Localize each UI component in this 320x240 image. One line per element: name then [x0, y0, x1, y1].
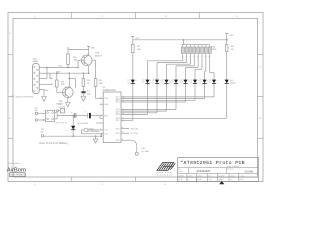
resistor R2 [82, 79, 85, 87]
ground symbol below CN1 [42, 97, 47, 102]
svg-text:P1.0: P1.0 [116, 113, 120, 116]
pin U1 right stub C6 [121, 128, 129, 130]
svg-text:12: 12 [122, 116, 124, 119]
svg-text:red: red [142, 81, 145, 84]
connector CN1 DB9 body [33, 64, 40, 94]
svg-text:5: 5 [100, 127, 101, 130]
svg-text:+C1 2.2u/63: +C1 2.2u/63 [78, 122, 88, 125]
svg-text:AirBorn: AirBorn [7, 166, 26, 173]
op-amp U1 AT89C2051 body [103, 92, 121, 143]
LED L10 [225, 80, 229, 84]
pin U1 P3.1 left [100, 97, 103, 99]
svg-text:VCC: VCC [229, 34, 234, 37]
terminal J1 positive [35, 112, 37, 114]
capacitor C1 polarized [87, 113, 89, 118]
power VCC symbol right [226, 34, 228, 40]
svg-text:VCC: VCC [91, 47, 96, 50]
svg-text:“AT89C2051 Proto PCB: “AT89C2051 Proto PCB [180, 160, 245, 166]
power VCC stub left [67, 47, 69, 50]
pin U1 XTAL1 left [100, 129, 103, 131]
wire xtal gnd tie [100, 134, 102, 136]
svg-text:+C6 X1B: +C6 X1B [130, 128, 138, 131]
svg-text:P3.4: P3.4 [116, 127, 120, 130]
wire VCC rail [133, 39, 227, 41]
ground TR1 emitter [67, 98, 69, 103]
wire L10 cathode to U1 [226, 83, 228, 118]
resistor R6 [94, 79, 97, 87]
transistor TR2 BC557 [82, 55, 93, 66]
resistor R3 [56, 80, 59, 87]
jumper JP1 header [46, 110, 55, 121]
svg-text:red: red [161, 81, 164, 84]
svg-text:ELECTRONICS: ELECTRONICS [11, 174, 26, 177]
logo hatched emblem [157, 163, 175, 171]
svg-text:8: 8 [122, 126, 123, 129]
svg-text:6: 6 [122, 138, 123, 141]
svg-text:a: a [135, 80, 136, 82]
svg-text:Gnd: Gnd [45, 89, 49, 92]
svg-text:9: 9 [122, 131, 123, 134]
ground symbol bottom rail [95, 136, 97, 139]
component small box [60, 109, 64, 113]
LED L4 [164, 80, 168, 84]
svg-text:P3.5: P3.5 [116, 132, 120, 135]
crystal X1 [84, 128, 88, 131]
svg-text:red: red [127, 81, 130, 84]
wire TxD line [47, 67, 78, 69]
svg-text:(Your Callout): (Your Callout) [227, 165, 239, 168]
title block row lines [178, 167, 259, 169]
svg-text:4: 4 [100, 135, 101, 138]
svg-text:red: red [170, 81, 173, 84]
svg-text:2k2x8: 2k2x8 [211, 48, 217, 51]
power VCC symbol top middle [132, 37, 134, 40]
resistor R9 [225, 45, 228, 52]
net flag DTR [51, 78, 53, 80]
pin U1 P3.7 right power led return [121, 119, 133, 121]
svg-text:R+ C+ R+ T+: R+ C+ R+ T+ [56, 121, 68, 124]
resistor R5 [67, 54, 70, 64]
svg-text:Click to link to:: Click to link to: [8, 162, 21, 165]
terminal J1 negative [35, 119, 37, 121]
wire VCC rail top-left [68, 49, 89, 51]
svg-text:XT2: XT2 [104, 133, 107, 136]
svg-text:red: red [180, 81, 183, 84]
ground below C3 [81, 97, 86, 102]
resistor network RN1 [183, 40, 185, 45]
svg-text:XTAL1: XTAL1 [88, 127, 95, 130]
border zone ticks left [8, 54, 13, 56]
wire CN1 pin stubs [39, 67, 47, 69]
power VCC symbol [88, 46, 90, 49]
transistor TR1 BC547 [63, 87, 74, 98]
svg-text:KEY: KEY [142, 147, 147, 150]
wire RxD line [50, 72, 89, 74]
pin U1 right stub C7 [121, 132, 129, 134]
diode D1 [72, 116, 74, 137]
svg-text:XT1: XT1 [104, 129, 107, 132]
svg-text:3: 3 [100, 96, 101, 99]
svg-text:TL-1105: TL-1105 [142, 150, 150, 153]
border zone ticks right [258, 54, 264, 56]
svg-text:2: 2 [100, 102, 101, 105]
svg-text:P3.6: P3.6 [116, 117, 120, 120]
key button terminal [135, 152, 138, 155]
svg-text:A01681947: A01681947 [197, 170, 211, 173]
svg-text:V2.006: V2.006 [245, 170, 254, 173]
svg-text:red: red [189, 81, 192, 84]
svg-text:PC serial connector: PC serial connector [12, 95, 34, 98]
capacitor C3 polarized [81, 91, 85, 93]
svg-text:red: red [208, 81, 211, 84]
svg-text:11.0592MHz: 11.0592MHz [88, 130, 99, 133]
cell dividers row2 [187, 168, 189, 174]
wire 5V line [55, 112, 58, 114]
svg-text:red: red [199, 81, 202, 84]
title block outline [178, 158, 259, 182]
LED L7 [193, 80, 197, 84]
wire R6 bottom to U1 [95, 86, 97, 98]
node battery junction [43, 119, 45, 121]
svg-text:red: red [151, 81, 154, 84]
pin U1 P3.0 left [100, 103, 103, 105]
wire collector branch [69, 78, 75, 80]
sheet inner border [13, 19, 258, 178]
svg-text:9V-: 9V- [41, 130, 44, 133]
wire R6 top to TR2 [92, 59, 96, 61]
wire 5V to U1 RST [91, 115, 100, 117]
logo AirBorn electronics box [10, 173, 26, 177]
svg-text:11: 11 [122, 119, 124, 122]
wire button arc [121, 139, 131, 141]
wire TR2 base [78, 59, 84, 61]
wire TR1 base [57, 91, 65, 93]
svg-text:P3.2: P3.2 [116, 139, 120, 142]
wires P1 bus to LEDs [121, 96, 214, 98]
LED L8 [202, 80, 206, 84]
sheet outer border [8, 13, 263, 182]
LED L3 [155, 80, 159, 84]
svg-text:1: 1 [100, 113, 101, 116]
wire ground rail bottom [43, 135, 45, 137]
terminal J2 [41, 135, 43, 137]
pin U1 RST left [100, 115, 103, 117]
svg-text:TxD: TxD [58, 65, 62, 68]
terminal J3 [57, 110, 59, 112]
border zone ticks top [71, 13, 73, 19]
wire power LED vertical [132, 83, 134, 120]
node Tx junction [46, 67, 48, 69]
svg-text:a: a [217, 80, 218, 82]
pin U1 XTAL2 left [100, 133, 103, 135]
svg-text:2.2u/16: 2.2u/16 [59, 105, 67, 108]
svg-text:RXD: RXD [104, 103, 109, 106]
svg-text:DB9F: DB9F [33, 60, 39, 63]
svg-text:AT89C2051: AT89C2051 [103, 89, 117, 92]
svg-text:+C7 X1A: +C7 X1A [130, 132, 138, 135]
wires RN1 to LED anodes [182, 55, 184, 61]
cell dividers row3 [186, 173, 188, 177]
capacitor C5 [73, 113, 75, 118]
wire to C1 [76, 115, 87, 117]
LED L1 [131, 80, 135, 84]
net flag RTS [51, 84, 53, 86]
LED L6 [183, 80, 187, 84]
cell dividers row4 [186, 177, 188, 181]
svg-text:TXD: TXD [104, 97, 108, 100]
wire CN1 ground pin [39, 89, 44, 91]
svg-text:BC557: BC557 [95, 54, 102, 57]
wire riser steps [46, 68, 48, 74]
svg-text:P1.4: P1.4 [116, 101, 120, 104]
svg-text:How To Fit A 9v Battery: How To Fit A 9v Battery [39, 141, 68, 145]
resistor R1 [132, 44, 135, 52]
pin U1 stub C2 [96, 122, 103, 124]
LED L9 [212, 80, 216, 84]
border zone ticks bottom [71, 177, 73, 182]
LED L2 [145, 80, 149, 84]
LED L5 [174, 80, 178, 84]
svg-text:Button: Button [230, 82, 235, 85]
wire TR1 collector [68, 73, 70, 87]
bottom fold mark [219, 181, 224, 184]
